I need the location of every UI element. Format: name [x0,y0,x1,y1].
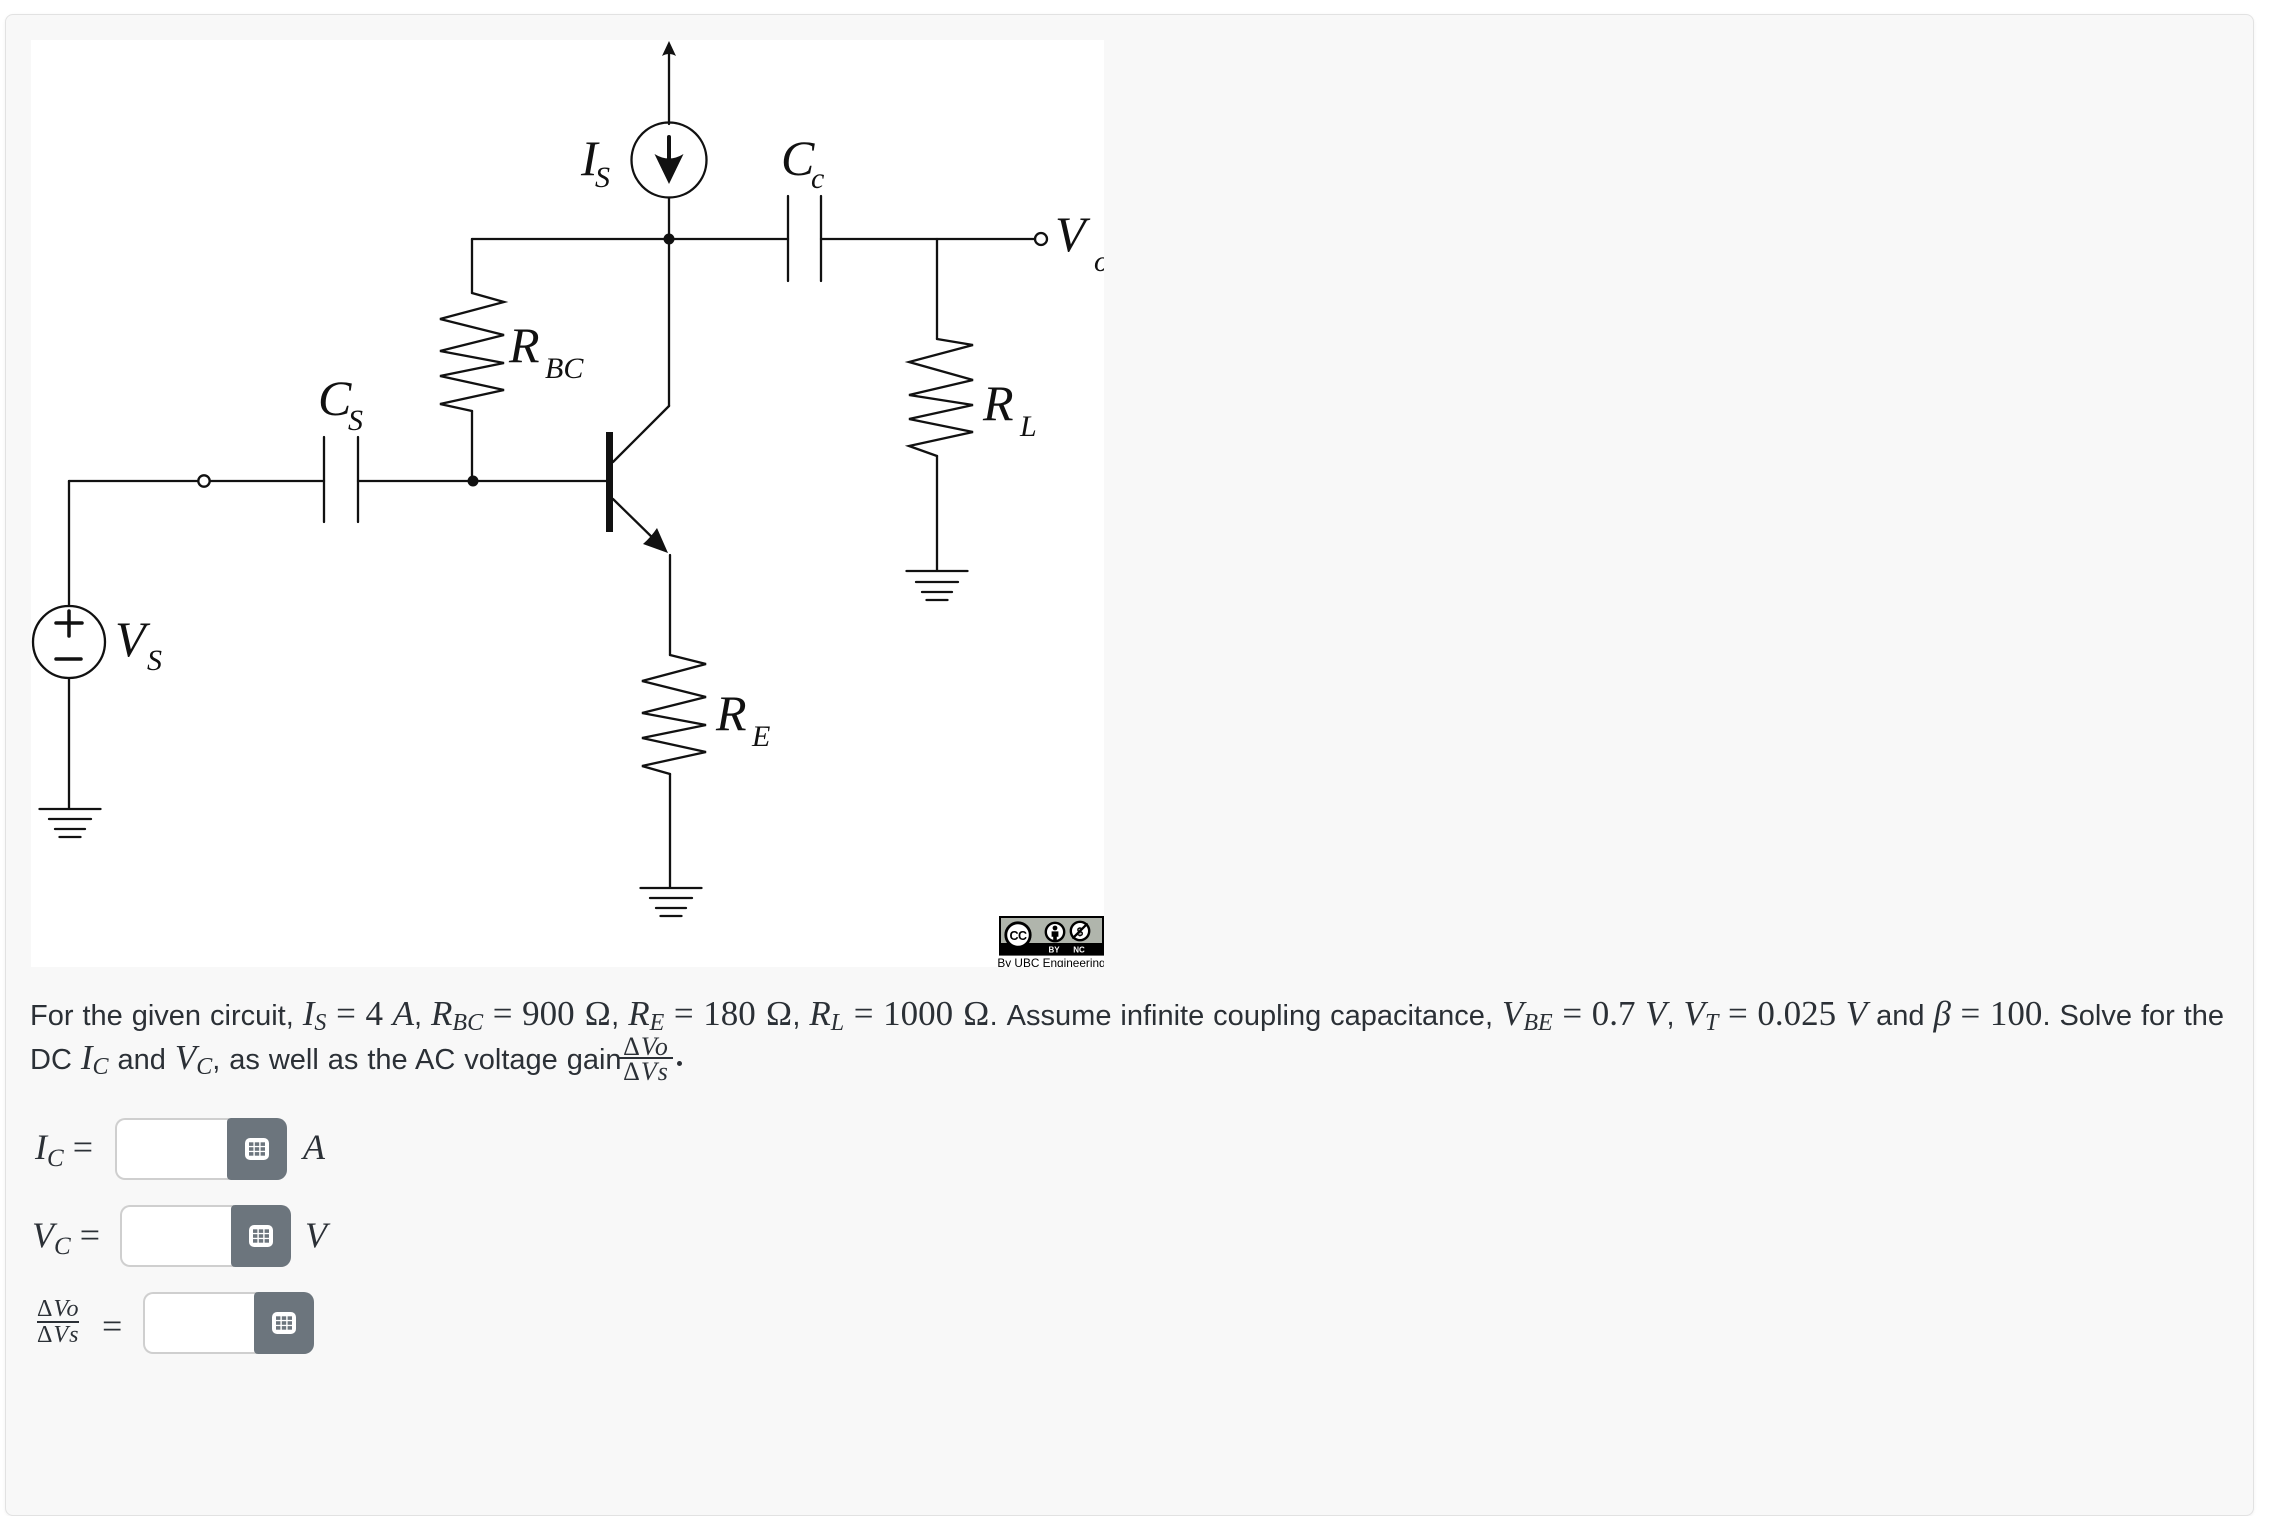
source Vs wire top [68,481,70,606]
base wire: source corner to terminal [69,480,198,482]
node at collector bus [664,234,675,245]
svg-text:R: R [715,685,747,741]
svg-text:S: S [147,644,162,677]
resistor RBC [471,239,473,293]
capacitor Cc [787,196,789,281]
Is arrow inside [667,137,671,160]
node at base [468,476,479,487]
resistor RE [642,655,706,774]
svg-text:E: E [751,720,770,753]
wire Cc to Vo [821,238,1035,240]
wire source to bus [668,198,670,240]
wire base node to transistor [473,480,606,482]
input terminal circle [198,475,209,486]
emitter arrowhead [643,528,668,553]
wire Vs to ground [68,678,70,808]
svg-text:S: S [595,161,610,194]
wire Cs to base node [358,480,473,482]
svg-text:BC: BC [545,352,584,385]
svg-text:R: R [982,375,1014,431]
ground (emitter) [641,887,702,889]
capacitor Cs [323,437,325,522]
wire RL to ground [936,456,938,570]
svg-text:R: R [508,317,540,373]
svg-text:CC: CC [1009,929,1027,943]
svg-text:L: L [1019,410,1037,443]
answer row 2: Vc [32,1214,100,1261]
emitter wire [669,555,671,655]
ground (source) [40,808,101,810]
circuit figure (white box) [31,40,1104,967]
svg-text:o: o [1094,245,1104,278]
output terminal Vo [1035,233,1047,245]
ground (right) [907,570,968,572]
svg-text:S: S [348,404,363,437]
wire RE to ground [669,774,671,887]
wire terminal to Cs [210,480,324,482]
question paragraph [30,994,2260,1082]
bus wire right segment (node to Cc) [669,238,788,240]
svg-text:C: C [318,370,352,426]
answer row 3: gain [37,1298,79,1347]
svg-text:By UBC Engineering: By UBC Engineering [997,956,1104,967]
voltage source Vs [33,606,105,678]
svg-text:BY: BY [1048,946,1060,955]
wire down to RL [936,239,938,339]
resistor RL [909,339,973,456]
collector wire [668,239,670,406]
svg-text:c: c [811,162,824,195]
answer row 1: Ic [35,1126,93,1173]
CC license badge [997,917,1105,970]
bus wire left segment (node to RBC corner) [472,238,669,240]
svg-text:NC: NC [1073,946,1085,955]
transistor Q1 [606,432,613,532]
current source Is circle [632,123,707,198]
svg-text:C: C [781,130,815,186]
top arrow of current source [668,50,670,124]
svg-text:V: V [1055,206,1091,262]
inline fraction dVo/dVs in paragraph [619,1036,673,1084]
svg-text:V: V [115,611,151,667]
